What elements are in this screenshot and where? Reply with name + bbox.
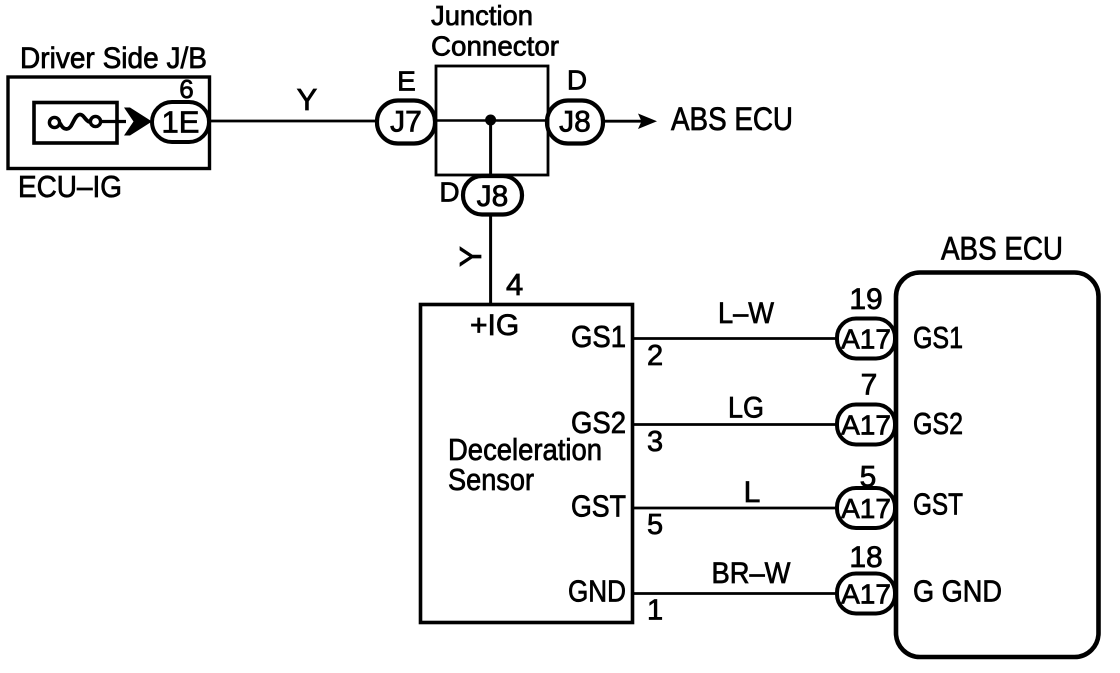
fuse ECU-IG holder box (34, 103, 117, 144)
svg-text:5: 5 (647, 509, 663, 541)
svg-text:1: 1 (647, 595, 663, 627)
connector J7 (377, 101, 435, 144)
svg-text:5: 5 (860, 461, 877, 494)
svg-text:19: 19 (849, 283, 882, 316)
svg-text:Y: Y (453, 246, 488, 267)
svg-text:A17: A17 (841, 324, 891, 355)
svg-text:GST: GST (913, 488, 963, 522)
arrow into connector 1E (124, 108, 152, 136)
wire J8 to ABS ECU (603, 120, 642, 123)
svg-text:A17: A17 (841, 579, 891, 610)
svg-text:A17: A17 (841, 493, 891, 524)
fuse ECU-IG symbol (49, 115, 100, 129)
connector J8 bottom (463, 176, 522, 215)
connector A17 pin 19 (837, 319, 895, 359)
wire GND to A17 (BR-W) (633, 592, 838, 595)
svg-text:Junction: Junction (431, 0, 533, 31)
svg-text:ABS ECU: ABS ECU (941, 231, 1063, 267)
svg-text:4: 4 (506, 267, 523, 302)
arrowhead to ABS ECU (638, 114, 657, 130)
svg-text:L–W: L–W (718, 297, 775, 330)
connector A17 pin 18 (837, 574, 895, 614)
svg-text:GS1: GS1 (571, 320, 626, 354)
ABS ECU box (896, 273, 1099, 658)
svg-text:GND: GND (568, 575, 626, 609)
svg-text:GS2: GS2 (913, 407, 963, 441)
svg-text:GST: GST (571, 490, 626, 524)
svg-text:7: 7 (861, 369, 878, 402)
connector A17 pin 7 (837, 405, 895, 445)
wire GS1 to A17 (L-W) (633, 337, 838, 340)
svg-text:3: 3 (647, 426, 663, 458)
connector 1E (152, 102, 209, 142)
deceleration sensor box (421, 305, 633, 623)
svg-text:J7: J7 (390, 106, 422, 139)
node junction dot (485, 115, 496, 126)
wire fuse output to connector 1E (101, 120, 127, 123)
wire 1E to J7 (Y) (209, 120, 378, 123)
svg-text:Driver Side J/B: Driver Side J/B (20, 42, 207, 75)
svg-text:L: L (744, 476, 761, 509)
wire J8 bottom down to sensor (Y) (489, 215, 492, 305)
svg-text:ECU–IG: ECU–IG (18, 169, 122, 204)
wire junction dot down to J8 bottom (489, 120, 492, 177)
connector A17 pin 5 (837, 488, 895, 528)
svg-text:GS1: GS1 (913, 321, 963, 355)
svg-text:18: 18 (849, 541, 882, 574)
svg-text:D: D (439, 177, 459, 208)
svg-text:ABS ECU: ABS ECU (671, 101, 793, 137)
svg-text:J8: J8 (559, 106, 591, 139)
svg-text:J8: J8 (477, 180, 509, 213)
svg-text:6: 6 (179, 74, 193, 104)
connector J8 right (547, 101, 603, 144)
svg-text:BR–W: BR–W (712, 557, 792, 590)
svg-text:E: E (397, 66, 416, 97)
svg-text:LG: LG (728, 392, 764, 425)
wire through junction connector (435, 119, 548, 122)
wire GST to A17 (L) (633, 507, 838, 510)
svg-text:+IG: +IG (470, 309, 519, 342)
svg-text:G GND: G GND (913, 575, 1002, 609)
svg-text:1E: 1E (162, 105, 200, 140)
junction connector box (436, 66, 548, 175)
svg-text:D: D (567, 65, 587, 96)
wire GS2 to A17 (LG) (633, 423, 838, 426)
svg-text:A17: A17 (841, 410, 891, 441)
svg-text:Y: Y (297, 82, 318, 117)
junction block Driver Side J/B box (8, 77, 210, 169)
svg-text:Connector: Connector (431, 31, 559, 62)
svg-text:Sensor: Sensor (448, 462, 534, 497)
svg-text:2: 2 (647, 340, 663, 372)
